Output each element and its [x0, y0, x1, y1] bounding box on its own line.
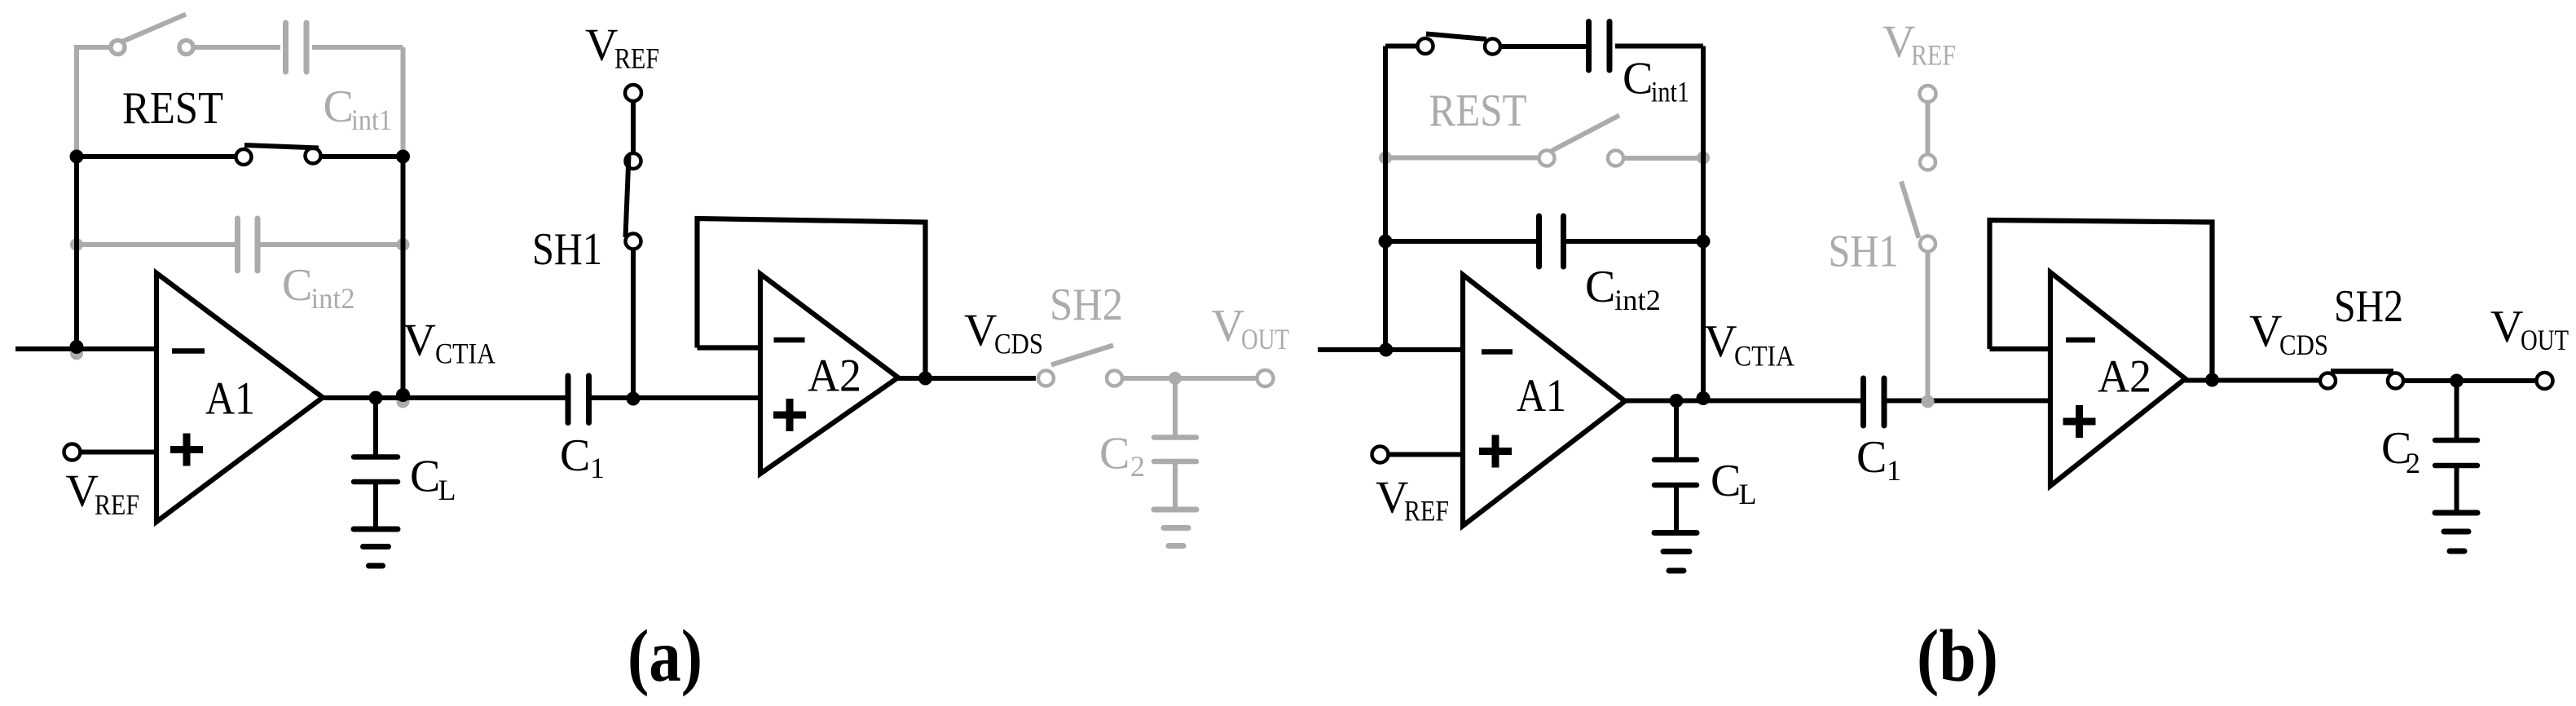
- svg-text:1: 1: [590, 452, 605, 484]
- svg-text:C: C: [1856, 432, 1887, 483]
- node C2 junction (b): [2450, 374, 2464, 388]
- wire A1 output (a): [323, 395, 566, 400]
- node gray ghost at VCTIA (a): [397, 395, 410, 408]
- terminal VREF top (b): [1920, 86, 1936, 102]
- svg-text:A1: A1: [205, 373, 255, 425]
- svg-text:int2: int2: [311, 282, 355, 315]
- switch REST1 (a) open, top-left: [111, 15, 193, 55]
- node SH1 bottom (a): [627, 392, 641, 406]
- wire C1 to A2 plus input (a): [592, 395, 760, 400]
- svg-text:CDS: CDS: [994, 328, 1043, 360]
- node A2 output (a): [918, 372, 932, 386]
- svg-text:(b): (b): [1917, 615, 1998, 697]
- node Cint2 left (b): [1379, 235, 1393, 249]
- op-amp A1 (b): [1463, 275, 1625, 526]
- wire A2 feedback (b): [1990, 220, 2213, 380]
- ground C2 (b): [2435, 513, 2477, 551]
- capacitor Cint2 (a) with feedback wires: [77, 218, 403, 271]
- capacitor C1 (b): [1864, 378, 1885, 426]
- node REST right (a): [396, 150, 410, 164]
- node gray SH1 bottom over wire (b): [1922, 395, 1935, 408]
- wire A1 output (b): [1625, 399, 1860, 404]
- svg-text:CTIA: CTIA: [1734, 340, 1794, 373]
- svg-text:2: 2: [2406, 447, 2420, 479]
- svg-text:SH1: SH1: [1829, 227, 1899, 277]
- svg-text:C: C: [410, 452, 440, 502]
- node CL junction (a): [369, 391, 383, 405]
- node gray REST left (b): [1379, 152, 1392, 165]
- capacitor Cint1 (a): [286, 23, 307, 72]
- terminal VREF top (a): [625, 85, 641, 101]
- svg-text:REST: REST: [1429, 86, 1527, 136]
- node CL junction (b): [1670, 394, 1684, 408]
- wire SH2 to VOUT terminal (b): [2403, 378, 2538, 383]
- node A2 output (b): [2205, 373, 2219, 387]
- svg-text:C: C: [1099, 429, 1129, 479]
- capacitor C1 (a): [568, 376, 589, 423]
- node gray Cint2 right (a): [397, 238, 410, 251]
- svg-text:OUT: OUT: [2521, 324, 2569, 356]
- wire VREF to plus input (b): [1388, 452, 1464, 457]
- ground C2 (a) gray: [1154, 510, 1196, 546]
- node gray ghost at input (a): [70, 347, 83, 360]
- switch SH2 (a) gray, open: [1038, 346, 1122, 386]
- wire A2 output (a): [896, 376, 1036, 381]
- wire (a) Cint1 to right vertical: [312, 45, 403, 50]
- wire gray SH2 to VOUT terminal (a): [1122, 376, 1259, 381]
- svg-text:C: C: [1585, 262, 1615, 312]
- svg-text:V: V: [585, 20, 618, 71]
- svg-text:REF: REF: [1404, 495, 1449, 527]
- svg-text:SH1: SH1: [532, 224, 602, 275]
- svg-text:OUT: OUT: [1241, 323, 1289, 355]
- svg-text:REF: REF: [614, 42, 659, 75]
- wire Cint1 to right vertical (b): [1615, 44, 1703, 49]
- svg-text:A1: A1: [1517, 370, 1566, 421]
- svg-text:C: C: [1711, 456, 1741, 506]
- svg-text:A2: A2: [2098, 351, 2151, 403]
- svg-text:int2: int2: [1614, 284, 1661, 316]
- svg-text:V: V: [2490, 302, 2523, 352]
- svg-text:L: L: [438, 474, 456, 506]
- wire (a) switch to Cint1: [194, 45, 280, 50]
- op-amp A2 (b): [2050, 272, 2186, 486]
- wire input (b): [1318, 347, 1463, 352]
- wire VREF to plus input (a): [80, 450, 157, 455]
- wire gray left vertical (a): [74, 45, 79, 157]
- switch SH1 (a) closed: [626, 100, 641, 398]
- wire gray top horizontal left stub (a): [77, 45, 110, 50]
- node gray Cint2 left (a): [70, 238, 83, 251]
- node gray REST right (b): [1697, 152, 1710, 165]
- op-amp A2 (a): [760, 274, 898, 474]
- terminal VREF (b): [1372, 447, 1389, 463]
- wire C1 to A2 plus input (b): [1887, 399, 2051, 404]
- node VCTIA (b): [1697, 391, 1711, 405]
- svg-text:L: L: [1739, 478, 1757, 510]
- terminal VOUT (a): [1257, 370, 1274, 386]
- svg-text:V: V: [964, 306, 997, 356]
- wire A2 feedback (a): [698, 218, 926, 378]
- capacitor Cint1 (b): [1589, 22, 1610, 71]
- svg-text:V: V: [66, 466, 99, 517]
- svg-text:CDS: CDS: [2279, 329, 2328, 361]
- svg-text:C: C: [560, 430, 590, 481]
- svg-text:SH2: SH2: [2334, 281, 2403, 332]
- op-amp A1 (a): [156, 273, 323, 522]
- ground CL (a): [354, 529, 398, 566]
- capacitor Cint2 (b) with feedback wires: [1385, 216, 1703, 267]
- terminal VREF (a): [64, 444, 81, 461]
- wire input (a): [15, 346, 156, 351]
- svg-text:SH2: SH2: [1050, 280, 1123, 330]
- switch SH1 (b) open: [1901, 101, 1935, 395]
- svg-text:(a): (a): [627, 615, 702, 697]
- switch SH2 (b) closed: [2320, 372, 2403, 389]
- svg-text:C: C: [282, 260, 312, 311]
- wire left vertical (b): [1383, 46, 1388, 351]
- svg-text:V: V: [403, 315, 436, 366]
- svg-text:CTIA: CTIA: [435, 338, 495, 370]
- node C2 junction (a): [1169, 372, 1182, 385]
- node VCTIA (a): [396, 388, 410, 402]
- svg-text:V: V: [1704, 316, 1737, 367]
- svg-text:int1: int1: [351, 104, 392, 136]
- svg-text:1: 1: [1887, 454, 1901, 487]
- node Cint2 right (b): [1697, 235, 1711, 249]
- svg-text:REST: REST: [122, 83, 223, 134]
- svg-text:V: V: [1212, 301, 1244, 351]
- node input (a): [70, 340, 84, 354]
- wire left vertical (a): [74, 157, 79, 349]
- capacitor CL (a): [354, 398, 398, 527]
- wire A2 output (b): [2184, 378, 2321, 383]
- node input (b): [1379, 343, 1393, 357]
- svg-text:A2: A2: [808, 351, 861, 402]
- wire right vertical (b): [1701, 46, 1706, 398]
- svg-text:C: C: [1623, 54, 1653, 104]
- switch REST top (b) closed: [1385, 34, 1586, 55]
- capacitor CL (b): [1654, 401, 1697, 531]
- terminal VOUT (b): [2537, 373, 2553, 389]
- node REST left (a): [70, 150, 84, 164]
- svg-text:int1: int1: [1651, 76, 1689, 108]
- svg-text:C: C: [324, 82, 354, 132]
- switch REST (a) closed: [77, 145, 403, 165]
- svg-text:REF: REF: [95, 488, 139, 521]
- wire right vertical (a): [401, 157, 406, 396]
- svg-text:REF: REF: [1911, 39, 1956, 72]
- capacitor C2 (b): [2435, 381, 2477, 510]
- ground CL (b): [1654, 533, 1697, 571]
- svg-text:2: 2: [1130, 450, 1145, 483]
- capacitor C2 (a) gray: [1154, 378, 1196, 507]
- svg-text:V: V: [2249, 307, 2282, 357]
- wire gray right vertical (a): [401, 47, 406, 157]
- switch REST (b) open, with reset row wires: [1385, 116, 1703, 166]
